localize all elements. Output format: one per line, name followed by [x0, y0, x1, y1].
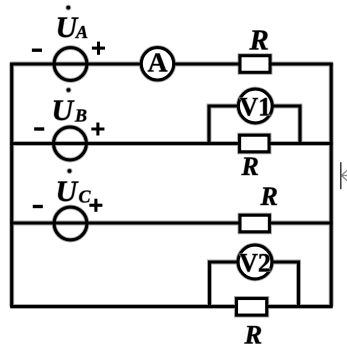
svg-text:V1: V1: [239, 93, 271, 122]
halo pass: [10, 42, 333, 316]
svg-text:A: A: [75, 22, 88, 42]
svg-text:C: C: [79, 187, 92, 207]
svg-text:A: A: [148, 47, 168, 78]
label UA dot: [66, 5, 71, 10]
label UB dot: [66, 88, 71, 93]
svg-text:R: R: [249, 25, 269, 57]
svg-text:B: B: [74, 106, 87, 126]
svg-text:U: U: [56, 175, 79, 208]
svg-text:R: R: [241, 152, 259, 181]
svg-text:V2: V2: [239, 249, 271, 278]
cursor artifact arrow: [342, 170, 347, 180]
svg-text:R: R: [260, 182, 278, 211]
label UC dot: [67, 169, 72, 174]
svg-text:U: U: [52, 94, 75, 127]
core pass: [10, 42, 333, 316]
cursor artifact vertical bar: [340, 162, 342, 189]
svg-text:R: R: [244, 320, 263, 350]
